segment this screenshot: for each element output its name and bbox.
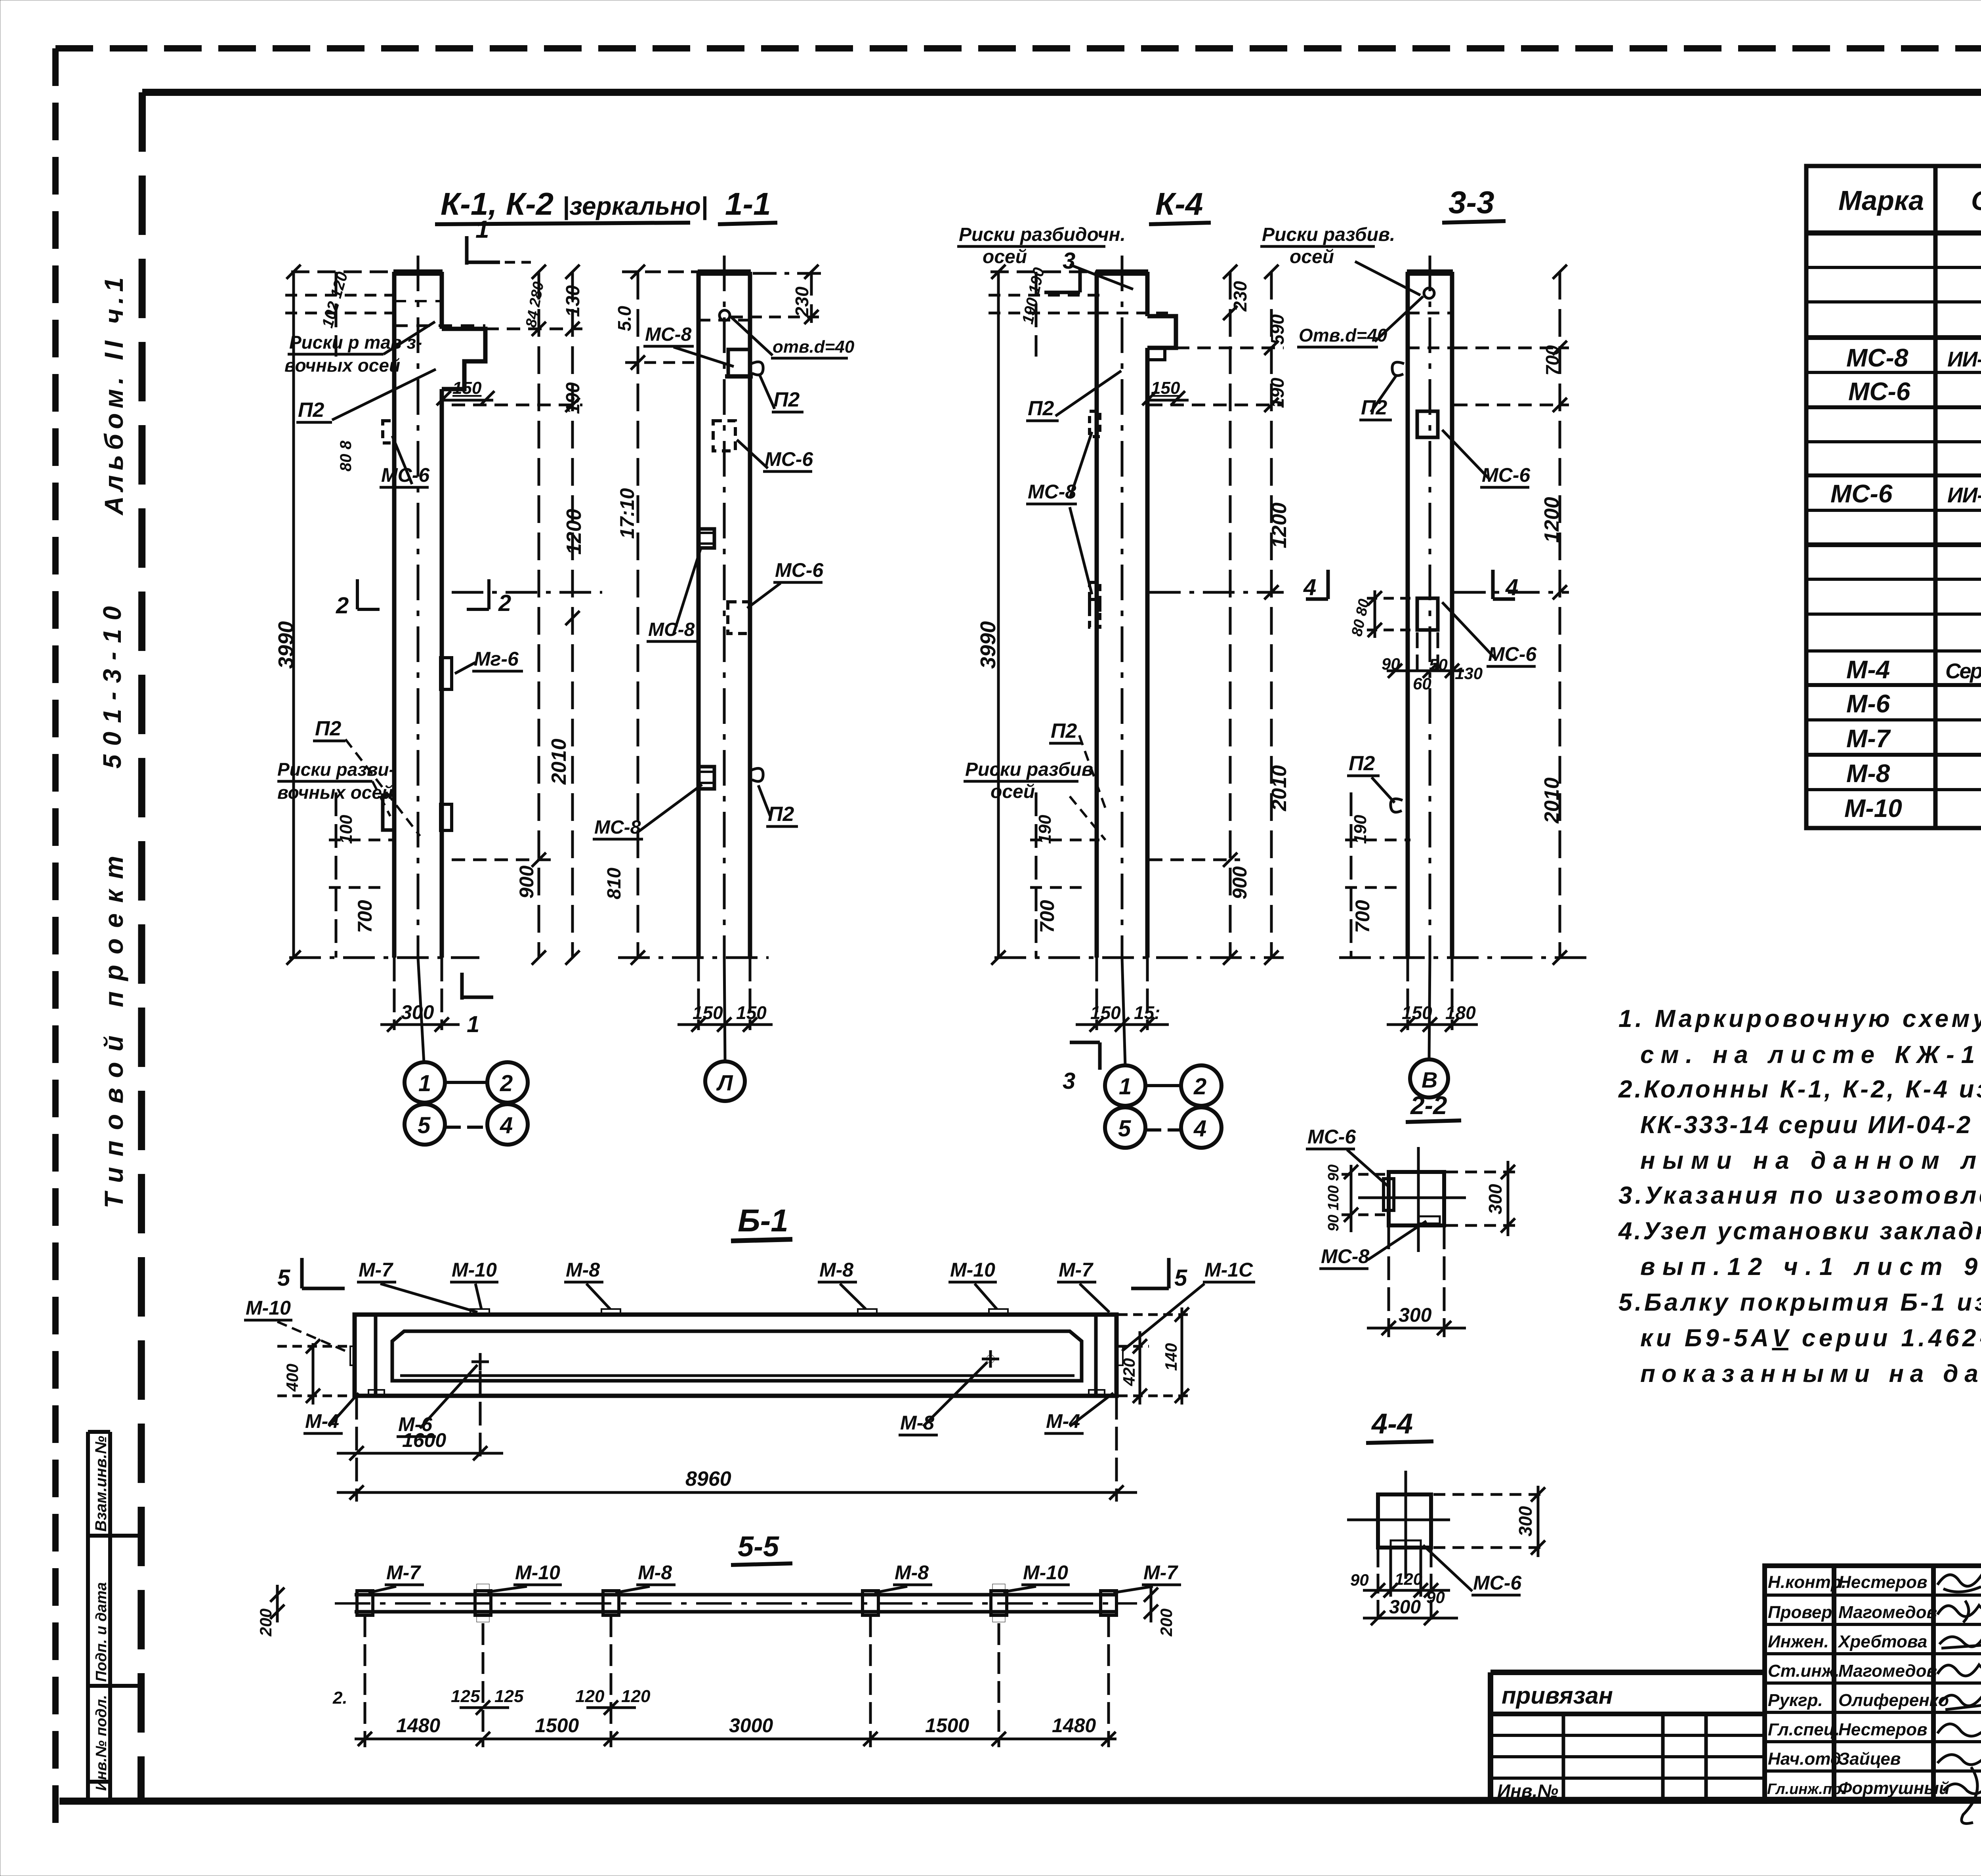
svg-text:Типовой проект: Типовой проект	[99, 856, 128, 1208]
svg-text:300: 300	[401, 1001, 434, 1023]
signature table	[1765, 1566, 1981, 1801]
circles 1 2 5 4	[405, 1062, 528, 1145]
bottom-left stamp margin table	[88, 1432, 141, 1801]
svg-text:П2: П2	[768, 803, 794, 826]
svg-text:84 280: 84 280	[523, 281, 548, 329]
left dim chain 3990	[285, 265, 479, 965]
svg-text:М-7: М-7	[359, 1259, 393, 1281]
svg-text:3-3: 3-3	[1449, 185, 1494, 220]
svg-text:1600: 1600	[402, 1429, 446, 1451]
svg-text:МС-8: МС-8	[1846, 344, 1908, 372]
small dims near lower square	[1367, 590, 1464, 678]
svg-text:П2: П2	[1051, 719, 1077, 742]
svg-text:190: 190	[1267, 378, 1288, 408]
svg-text:5: 5	[1174, 1265, 1187, 1291]
privyazan box	[1491, 1670, 1765, 1675]
svg-text:ки Б9-5АV серии 1.462-10 в: ки Б9-5АV серии 1.462-10 вып.1 с закладн…	[1640, 1324, 1981, 1352]
svg-text:230: 230	[1230, 281, 1250, 312]
right dim chains	[1142, 265, 1284, 965]
svg-text:М-10: М-10	[246, 1297, 291, 1319]
svg-text:150: 150	[693, 1002, 723, 1023]
svg-text:1. Маркировочную схему балок: 1. Маркировочную схему балок покрытия, к…	[1618, 1005, 1981, 1032]
svg-text:МС-8: МС-8	[645, 324, 692, 345]
svg-text:3990: 3990	[976, 621, 1000, 669]
svg-text:2010: 2010	[1268, 765, 1291, 811]
svg-text:МС-6: МС-6	[1307, 1126, 1356, 1148]
svg-text:190: 190	[563, 382, 584, 414]
right dim 300	[1446, 1161, 1517, 1236]
svg-text:Магомедов: Магомедов	[1838, 1661, 1937, 1681]
svg-text:ными на данном листе.: ными на данном листе.	[1640, 1147, 1981, 1174]
svg-text:Б-1: Б-1	[738, 1203, 788, 1238]
svg-text:130: 130	[563, 285, 584, 317]
right dims	[1118, 1307, 1193, 1405]
svg-text:привязан: привязан	[1502, 1682, 1613, 1709]
svg-text:Риски разбидочн.: Риски разбидочн.	[959, 224, 1126, 245]
shaft	[698, 272, 751, 958]
top plates	[350, 1309, 1123, 1395]
svg-text:1200: 1200	[563, 509, 586, 555]
П2 hooks	[1392, 362, 1404, 376]
svg-text:2.: 2.	[332, 1688, 347, 1708]
svg-text:8960: 8960	[685, 1468, 731, 1490]
svg-text:150: 150	[1151, 378, 1180, 398]
svg-text:П2: П2	[1349, 752, 1375, 775]
embedded marks	[383, 421, 395, 443]
svg-text:80 8: 80 8	[337, 440, 355, 471]
svg-text:2010: 2010	[548, 739, 571, 785]
svg-text:1: 1	[1119, 1074, 1132, 1099]
svg-text:5: 5	[1118, 1116, 1131, 1141]
svg-text:М-4: М-4	[1846, 655, 1890, 684]
labels	[368, 1561, 1181, 1593]
svg-text:150: 150	[1090, 1002, 1121, 1023]
svg-text:230: 230	[792, 286, 812, 317]
svg-text:Нестеров: Нестеров	[1838, 1720, 1928, 1739]
svg-text:Подп. и дата: Подп. и дата	[93, 1582, 110, 1682]
svg-text:ИИ-04-2, вып.12 ч.1: ИИ-04-2, вып.12 ч.1	[1947, 483, 1981, 507]
150 dim under corbel	[442, 399, 493, 402]
svg-text:3990: 3990	[274, 621, 298, 669]
svg-text:50: 50	[1429, 655, 1448, 674]
svg-text:МС-6: МС-6	[775, 559, 824, 581]
svg-text:Инв.№ подл.: Инв.№ подл.	[93, 1695, 110, 1791]
svg-text:П2: П2	[773, 388, 800, 411]
svg-text:180: 180	[1445, 1002, 1476, 1023]
hole at top	[719, 310, 730, 321]
svg-text:вып.12 ч.1 лист 96.: вып.12 ч.1 лист 96.	[1640, 1253, 1981, 1281]
svg-text:показанными на данном листе: показанными на данном листе.	[1640, 1360, 1981, 1387]
axis to circles	[418, 958, 424, 1063]
svg-text:М-8: М-8	[895, 1561, 929, 1584]
svg-text:Рукгр.: Рукгр.	[1768, 1691, 1823, 1710]
svg-text:Фортушный: Фортушный	[1838, 1779, 1950, 1798]
svg-text:1480: 1480	[1052, 1714, 1096, 1737]
signatures scribbles	[1937, 1573, 1981, 1824]
svg-text:130: 130	[1455, 664, 1483, 683]
plates	[357, 1591, 1116, 1615]
svg-text:190 190: 190 190	[1019, 266, 1048, 326]
svg-text:вочных осей: вочных осей	[284, 355, 400, 376]
svg-text:Инв.№: Инв.№	[1497, 1781, 1558, 1801]
svg-text:П2: П2	[315, 717, 341, 740]
svg-text:150: 150	[452, 378, 482, 398]
svg-text:МС-6: МС-6	[1482, 464, 1531, 486]
labels with leaders	[277, 322, 523, 836]
column shaft	[393, 272, 485, 958]
shaft	[1096, 272, 1176, 958]
svg-text:см. на листе КЖ-13.: см. на листе КЖ-13.	[1640, 1041, 1981, 1069]
svg-text:190: 190	[1035, 815, 1055, 844]
right dim chain	[731, 265, 822, 324]
svg-text:900: 900	[1229, 866, 1251, 899]
svg-text:2: 2	[336, 593, 349, 618]
vertical column lines	[1933, 166, 1938, 828]
svg-text:Нестеров: Нестеров	[1838, 1573, 1928, 1592]
svg-text:отв.d=40: отв.d=40	[773, 337, 855, 357]
bottom dims	[337, 1371, 1137, 1502]
svg-text:МС-8: МС-8	[1028, 481, 1076, 503]
svg-text:2010: 2010	[1540, 777, 1563, 824]
signature table labels	[1767, 1573, 1950, 1798]
svg-text:М-8: М-8	[819, 1259, 853, 1281]
svg-text:4: 4	[1505, 574, 1518, 600]
svg-text:200: 200	[1157, 1609, 1176, 1637]
title block	[1491, 1566, 1981, 1801]
svg-text:200: 200	[256, 1609, 275, 1637]
labels above	[244, 1258, 1255, 1437]
svg-text:Риски разбив: Риски разбив	[965, 759, 1093, 780]
svg-text:М-7: М-7	[386, 1561, 421, 1584]
left chain bottom	[1339, 792, 1589, 958]
svg-text:4.Узел установки закладной: 4.Узел установки закладной детали МС-8 с…	[1618, 1218, 1981, 1245]
side dims	[270, 1585, 1158, 1622]
svg-text:300: 300	[1515, 1506, 1536, 1536]
svg-text:Взам.инв.№: Взам.инв.№	[92, 1436, 110, 1532]
svg-text:420: 420	[1120, 1358, 1138, 1386]
svg-text:4: 4	[1193, 1116, 1206, 1141]
svg-text:300: 300	[1399, 1304, 1432, 1326]
svg-text:90: 90	[1350, 1571, 1369, 1589]
svg-text:МС-8: МС-8	[594, 817, 641, 838]
right chain	[1454, 265, 1569, 965]
cross marks in beam	[471, 1361, 489, 1363]
svg-text:190: 190	[1351, 815, 1370, 844]
axis dash-dot	[417, 256, 420, 958]
svg-text:Хребтова: Хребтова	[1837, 1632, 1927, 1651]
svg-text:П2: П2	[298, 399, 324, 422]
svg-text:4: 4	[1303, 574, 1316, 600]
brackets	[728, 349, 750, 376]
beam body	[355, 1315, 1116, 1396]
svg-text:М-1С: М-1С	[1204, 1259, 1253, 1281]
shaft	[1407, 272, 1453, 958]
right dim chains	[437, 265, 602, 965]
svg-text:М-10: М-10	[452, 1259, 497, 1281]
handwritten notes	[1618, 1005, 1981, 1387]
labels	[593, 317, 855, 839]
svg-text:501-3-10: 501-3-10	[98, 606, 126, 769]
svg-text:5: 5	[277, 1265, 290, 1291]
svg-text:М-8: М-8	[1846, 759, 1890, 788]
horizontal row lines	[1806, 231, 1981, 236]
svg-text:Обозначение: Обозначение	[1971, 186, 1981, 216]
svg-text:М-6: М-6	[1846, 689, 1890, 718]
svg-text:140: 140	[1162, 1343, 1180, 1371]
svg-text:120: 120	[621, 1687, 651, 1706]
bottom	[1076, 958, 1169, 1032]
svg-text:МС-6: МС-6	[1830, 479, 1893, 508]
svg-text:М-10: М-10	[515, 1561, 560, 1584]
svg-text:2.Колонны К-1, К-2, К-4 изго: 2.Колонны К-1, К-2, К-4 изготовить опалу…	[1618, 1076, 1981, 1103]
svg-text:М-10: М-10	[1844, 794, 1902, 823]
svg-text:МС-6: МС-6	[765, 448, 813, 470]
svg-text:МС-6: МС-6	[1488, 643, 1537, 665]
svg-text:Гл.инж.пр.: Гл.инж.пр.	[1767, 1781, 1845, 1798]
svg-text:3: 3	[1063, 248, 1075, 274]
svg-text:1480: 1480	[396, 1714, 440, 1737]
left dims	[1342, 1165, 1389, 1232]
strip	[355, 1593, 1116, 1597]
svg-text:2: 2	[1193, 1074, 1206, 1099]
left dim chain	[622, 265, 701, 965]
МС-6 squares	[1417, 411, 1438, 437]
svg-text:90 100 90: 90 100 90	[1325, 1164, 1342, 1231]
svg-text:МС-6: МС-6	[1848, 377, 1910, 406]
svg-text:1-1: 1-1	[725, 186, 771, 221]
svg-text:5.0: 5.0	[614, 306, 635, 331]
svg-text:ИИ-04-2; вып.12 ч.1: ИИ-04-2; вып.12 ч.1	[1947, 347, 1981, 371]
bottom dim 300	[1367, 1225, 1466, 1337]
svg-text:Мг-6: Мг-6	[474, 648, 519, 670]
svg-text:4-4: 4-4	[1371, 1408, 1413, 1440]
svg-text:700: 700	[354, 900, 376, 933]
svg-text:3.Указания по изготовлению: 3.Указания по изготовлению колонн см. се…	[1618, 1182, 1981, 1209]
svg-text:150: 150	[1402, 1002, 1432, 1023]
right dim 300	[1433, 1486, 1547, 1557]
svg-text:900: 900	[515, 865, 538, 899]
svg-text:1: 1	[475, 216, 489, 243]
svg-text:Провер.: Провер.	[1768, 1603, 1837, 1622]
svg-text:1: 1	[467, 1011, 479, 1037]
svg-text:5: 5	[418, 1113, 431, 1138]
svg-text:Отв.d=40: Отв.d=40	[1299, 325, 1387, 345]
svg-text:Инжен.: Инжен.	[1768, 1632, 1829, 1651]
left dim chains	[989, 265, 1284, 965]
bottom	[618, 958, 773, 1032]
svg-text:5-5: 5-5	[738, 1531, 779, 1563]
svg-text:Гл.спец.: Гл.спец.	[1768, 1720, 1840, 1739]
svg-text:1500: 1500	[925, 1714, 969, 1737]
svg-text:Марка: Марка	[1838, 185, 1924, 216]
svg-text:1: 1	[418, 1071, 431, 1096]
svg-text:осей: осей	[990, 781, 1035, 802]
svg-text:Риски разбив.: Риски разбив.	[1262, 224, 1395, 245]
svg-text:120: 120	[1395, 1570, 1422, 1588]
svg-text:90: 90	[1426, 1588, 1445, 1607]
svg-text:17:10: 17:10	[616, 488, 638, 539]
svg-text:2: 2	[500, 1071, 513, 1096]
svg-text:5.Балку покрытия Б-1 изгото: 5.Балку покрытия Б-1 изготовить в опалуб…	[1618, 1289, 1981, 1316]
labels	[1347, 376, 1537, 803]
svg-text:810: 810	[604, 868, 625, 899]
svg-text:М-10: М-10	[1023, 1561, 1068, 1584]
svg-text:МС-8: МС-8	[1321, 1245, 1369, 1267]
svg-text:300: 300	[1485, 1184, 1506, 1214]
svg-text:П2: П2	[1028, 397, 1054, 420]
svg-text:Нач.отд: Нач.отд	[1768, 1749, 1841, 1769]
svg-text:М-7: М-7	[1059, 1259, 1094, 1281]
embedded marks left edge	[1090, 411, 1100, 437]
svg-text:80 80: 80 80	[1349, 597, 1373, 638]
svg-text:В: В	[1422, 1067, 1437, 1092]
svg-text:КК-333-14 серии ИИ-04-2 вып.: КК-333-14 серии ИИ-04-2 вып.7 с закладны…	[1640, 1111, 1981, 1139]
left dims	[277, 1339, 353, 1405]
svg-text:Ст.инж.: Ст.инж.	[1768, 1661, 1840, 1681]
svg-text:102 120: 102 120	[319, 270, 351, 330]
svg-text:осей: осей	[1290, 246, 1334, 267]
svg-text:3000: 3000	[729, 1714, 773, 1737]
svg-text:150: 150	[736, 1002, 767, 1023]
svg-text:60: 60	[1413, 674, 1431, 693]
svg-text:К-4: К-4	[1155, 186, 1203, 221]
svg-text:4: 4	[500, 1113, 513, 1138]
cap bottom dashed	[394, 324, 485, 327]
svg-text:Н.контр.: Н.контр.	[1768, 1573, 1846, 1592]
svg-text:90: 90	[1382, 655, 1400, 673]
labels	[964, 371, 1121, 840]
svg-text:МС-8: МС-8	[648, 619, 695, 640]
specification table top right	[1806, 166, 1981, 828]
bottom	[380, 958, 460, 1032]
svg-text:125: 125	[494, 1687, 524, 1706]
svg-text:1200: 1200	[1268, 502, 1291, 548]
svg-text:М-7: М-7	[1846, 724, 1891, 753]
svg-text:1200: 1200	[1540, 497, 1563, 543]
svg-text:100: 100	[336, 815, 356, 844]
svg-text:2-2: 2-2	[1410, 1091, 1447, 1120]
svg-text:М-10: М-10	[950, 1259, 995, 1281]
svg-text:Серия 1.462-10 вып.2: Серия 1.462-10 вып.2	[1945, 659, 1981, 683]
svg-text:120: 120	[575, 1687, 605, 1706]
bottom	[1387, 958, 1478, 1032]
svg-text:М-7: М-7	[1143, 1561, 1178, 1584]
svg-text:М-8: М-8	[566, 1259, 600, 1281]
svg-text:590: 590	[1267, 314, 1288, 345]
svg-text:300: 300	[1389, 1597, 1421, 1618]
svg-text:125: 125	[451, 1687, 480, 1706]
svg-text:700: 700	[1351, 900, 1374, 933]
svg-text:М-8: М-8	[638, 1561, 672, 1584]
svg-text:Риски разви-: Риски разви-	[277, 759, 395, 780]
svg-text:М-8: М-8	[900, 1412, 934, 1434]
svg-text:Л: Л	[716, 1070, 733, 1095]
svg-text:2: 2	[498, 590, 511, 616]
lower dims	[355, 1615, 1116, 1747]
svg-text:400: 400	[283, 1364, 302, 1392]
left margin vertical handwritten captions	[98, 277, 128, 1208]
bottom dims	[1363, 1548, 1458, 1625]
svg-text:Олиференко: Олиференко	[1838, 1691, 1949, 1710]
svg-text:15:: 15:	[1134, 1002, 1160, 1023]
svg-text:Магомедов: Магомедов	[1838, 1603, 1937, 1622]
svg-text:700: 700	[1036, 900, 1058, 933]
svg-text:МС-6: МС-6	[1473, 1572, 1522, 1594]
svg-text:Зайцев: Зайцев	[1838, 1749, 1901, 1769]
svg-text:Альбом. II ч.1: Альбом. II ч.1	[99, 277, 128, 516]
svg-text:1500: 1500	[535, 1714, 579, 1737]
svg-text:700: 700	[1542, 345, 1563, 376]
svg-text:3: 3	[1063, 1068, 1075, 1094]
